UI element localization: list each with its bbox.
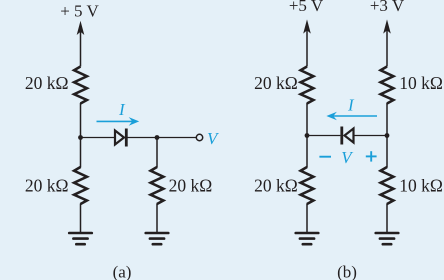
node D junction dot (b right) <box>385 133 390 138</box>
diode D2 (b) pointing left <box>342 127 354 145</box>
wire rail (b right) <box>386 103 388 168</box>
svg-text:20 kΩ: 20 kΩ <box>169 176 213 196</box>
svg-text:20 kΩ: 20 kΩ <box>25 176 69 196</box>
output terminal open circle <box>196 134 202 140</box>
svg-text:10 kΩ: 10 kΩ <box>399 176 443 196</box>
wire rail (a) resistor to node <box>80 103 82 168</box>
resistor R3 20k (a bottom-right) <box>151 167 164 204</box>
polarity minus sign <box>319 156 331 158</box>
resistor R1 20k (a top) <box>74 67 87 104</box>
svg-text:+ 5 V: + 5 V <box>60 2 99 21</box>
wire rail (b left) <box>306 103 308 168</box>
resistor R5 10k (b top-right) <box>381 67 394 104</box>
power arrow (a) <box>77 21 85 67</box>
wire R6 to ground <box>306 204 308 233</box>
svg-text:+5 V: +5 V <box>289 0 324 15</box>
wire R7 to ground <box>386 204 388 233</box>
wire node C to diode bar <box>307 135 340 137</box>
resistor R2 20k (a bottom-left) <box>74 167 87 204</box>
ground (b left) <box>296 233 319 244</box>
svg-text:(a): (a) <box>113 263 132 280</box>
ground (a left) <box>69 233 92 244</box>
polarity plus sign <box>366 151 377 161</box>
wire R2 to ground <box>80 204 82 233</box>
wire diode to node B <box>127 137 196 139</box>
node B junction dot <box>155 135 160 140</box>
wire R3 to ground <box>156 204 158 233</box>
wire node A to diode <box>81 137 116 139</box>
resistor R6 20k (b bottom-left) <box>301 167 314 204</box>
svg-text:(b): (b) <box>337 263 357 280</box>
node A junction dot <box>78 135 83 140</box>
current arrow I (b) pointing left <box>326 112 377 121</box>
ground (b right) <box>376 233 399 244</box>
resistor R4 20k (b top-left) <box>301 67 314 104</box>
resistor R7 10k (b bottom-right) <box>381 167 394 204</box>
wire diode to node D <box>354 135 388 137</box>
svg-text:20 kΩ: 20 kΩ <box>25 73 69 93</box>
svg-text:+3 V: +3 V <box>370 0 405 15</box>
svg-text:10 kΩ: 10 kΩ <box>399 73 443 93</box>
node C junction dot (b left) <box>305 133 310 138</box>
ground (a right) <box>146 233 169 244</box>
current arrow I (a) <box>97 117 140 126</box>
svg-text:20 kΩ: 20 kΩ <box>254 176 298 196</box>
diode D1 (a) pointing right <box>115 129 126 147</box>
power arrow (b left) <box>303 19 311 66</box>
power arrow (b right) <box>383 19 391 66</box>
wire node B down to R3 <box>156 138 158 168</box>
svg-text:20 kΩ: 20 kΩ <box>254 73 298 93</box>
